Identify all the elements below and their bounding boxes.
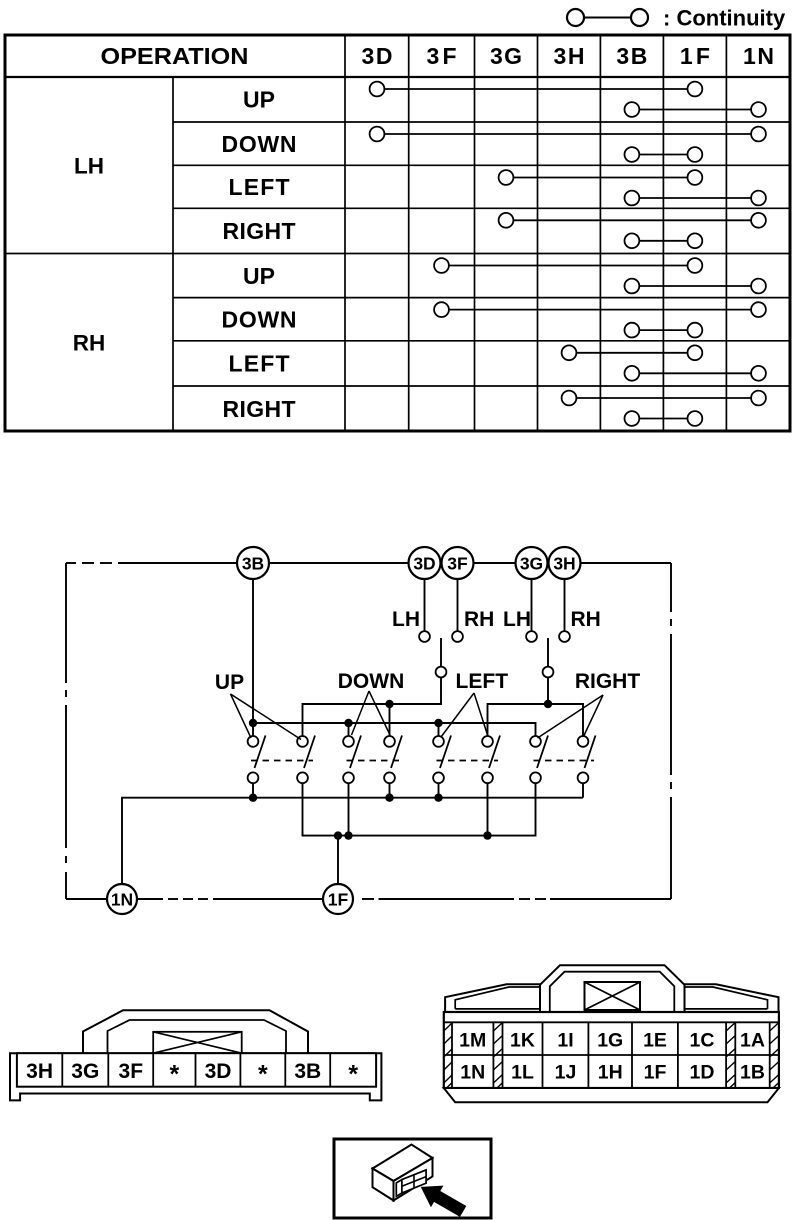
label LEFT with leader lines: [441, 670, 508, 737]
svg-text:RH: RH: [464, 608, 494, 631]
relay body right face: [394, 1158, 433, 1201]
svg-text:RIGHT: RIGHT: [223, 396, 296, 422]
svg-text:DOWN: DOWN: [222, 131, 297, 157]
svg-text:1D: 1D: [690, 1061, 715, 1083]
svg-text:3H: 3H: [554, 43, 585, 69]
svg-text:*: *: [170, 1061, 180, 1089]
switch 8 RIGHT-RH: [578, 736, 596, 784]
connector body frame: [444, 1012, 779, 1088]
svg-text:1K: 1K: [510, 1030, 535, 1052]
svg-text:3B: 3B: [294, 1060, 321, 1083]
wire switch4 bottom to 1N bus: [389, 783, 391, 797]
connector hood inner: [550, 972, 675, 1012]
row direction labels: [222, 87, 297, 422]
RH DOWN: 3F-1N / 3B-1F: [434, 302, 766, 317]
svg-text:1L: 1L: [511, 1061, 534, 1083]
contact 3G (LH): [526, 631, 537, 642]
label RIGHT with leader lines: [538, 670, 641, 738]
svg-text:LH: LH: [74, 154, 104, 179]
junction right group bus / right pivot: [544, 700, 552, 708]
svg-text:LEFT: LEFT: [229, 174, 290, 200]
wire left group bus drop to switch 4: [389, 704, 391, 736]
contact 3H (RH): [559, 631, 570, 642]
mechanical coupling dashed links: [251, 760, 594, 762]
wiper LH/RH selector left: [440, 638, 442, 667]
svg-text:LH: LH: [392, 608, 420, 631]
pivot contact right selector: [543, 667, 554, 678]
switch bank: 8 poles: [248, 736, 596, 784]
svg-text:3F: 3F: [427, 43, 457, 69]
wire 3B riser down to switch 1: [252, 579, 254, 736]
wire bottom rail left corner to 1N: [66, 898, 107, 900]
connector hood outer: [540, 965, 685, 1012]
terminal 3D: [409, 547, 441, 579]
switch 3 DOWN-LH: [343, 736, 361, 784]
legend continuity symbol: [567, 6, 786, 31]
wire switch6 bottom to 1F bus: [487, 783, 489, 835]
RH RIGHT: 3H-1N / 3B-1F: [562, 391, 766, 406]
svg-text:3D: 3D: [362, 43, 393, 69]
junction 3B bus / switch 3: [344, 719, 352, 727]
svg-text:3B: 3B: [242, 554, 264, 574]
connector bottom lip: [444, 1088, 779, 1102]
svg-text:3G: 3G: [490, 43, 522, 69]
switch 1 UP-LH: [248, 736, 266, 784]
junction 3B bus / switch 5: [434, 719, 442, 727]
wire right pivot to right group bus: [547, 678, 549, 705]
contact 3F (RH): [452, 631, 463, 642]
svg-text:RH: RH: [571, 608, 601, 631]
junction 1N bus / switch 1: [249, 794, 257, 802]
label DOWN with leader lines: [338, 670, 405, 735]
wire switch3 bottom to 1F bus: [348, 783, 350, 835]
svg-text:1A: 1A: [740, 1030, 765, 1052]
svg-text:1J: 1J: [555, 1061, 577, 1083]
svg-text:DOWN: DOWN: [222, 307, 297, 333]
svg-text:1G: 1G: [597, 1030, 623, 1052]
svg-text:UP: UP: [243, 263, 275, 289]
wire bottom rail 1F to right corner with dashes: [362, 898, 671, 900]
wire 3B bus drop to switch 3: [348, 723, 350, 736]
terminal 3F: [442, 547, 474, 579]
svg-text:3H: 3H: [553, 554, 575, 574]
svg-text:1H: 1H: [598, 1061, 623, 1083]
wire left pivot to left group bus: [303, 678, 442, 737]
relay frame: [334, 1139, 491, 1218]
wiper LH/RH selector right: [547, 638, 549, 667]
svg-text:DOWN: DOWN: [338, 670, 405, 693]
junction 1N bus / switch 5: [434, 794, 442, 802]
wire 1F bus: [303, 783, 536, 835]
wire right group bus switch6 to switch8: [488, 704, 584, 736]
svg-text:1F: 1F: [644, 1061, 667, 1083]
wire 1N bus: [122, 798, 583, 884]
wire switch8 bottom to 1N bus: [582, 783, 584, 797]
svg-text:1F: 1F: [328, 890, 349, 910]
switch 7 RIGHT-LH: [530, 736, 548, 784]
wire top rail left segment with break: [66, 562, 238, 564]
pivot contact left selector: [436, 667, 447, 678]
connector lock box with X: [153, 1032, 242, 1053]
continuity bars: line + two open circles each: [370, 82, 766, 426]
connector grid midline: [444, 1054, 779, 1056]
svg-text:3F: 3F: [447, 554, 468, 574]
svg-text:1M: 1M: [459, 1030, 486, 1052]
terminal 3H: [549, 547, 581, 579]
wire top rail 3B to 3D: [269, 562, 410, 564]
hatched blank strips: [444, 1023, 779, 1089]
wire 3D drop to contact: [424, 579, 426, 631]
table horizontal grid lines: [5, 77, 790, 386]
junction 1N bus / switch 4: [385, 794, 393, 802]
svg-text:3G: 3G: [71, 1060, 99, 1083]
connector left wing: [445, 984, 540, 1012]
wire 3H drop to contact: [564, 579, 566, 631]
switch 4 DOWN-RH: [384, 736, 402, 784]
svg-text:3F: 3F: [119, 1060, 144, 1083]
svg-text:1N: 1N: [111, 890, 133, 910]
junction 3B riser / 3B bus: [249, 719, 257, 727]
terminal 3B: [237, 547, 269, 579]
junction 1F bus / switch 3: [344, 831, 352, 839]
svg-text:3G: 3G: [520, 554, 543, 574]
svg-text:3D: 3D: [205, 1060, 232, 1083]
connector hood outer: [83, 1010, 308, 1053]
svg-text:1I: 1I: [557, 1030, 573, 1052]
junction 1F bus / switch 6: [483, 831, 491, 839]
relay pointer arrow: [414, 1176, 469, 1220]
wire 3F drop to contact: [457, 579, 459, 631]
svg-text:3H: 3H: [26, 1060, 53, 1083]
terminal 3G: [516, 547, 548, 579]
wire 1F riser: [337, 836, 339, 884]
wire 3G drop to contact: [531, 579, 533, 631]
relay body top face: [373, 1145, 433, 1182]
wire switch5 bottom to 1N bus: [438, 783, 440, 797]
wire left border vertical with dash-dot breaks: [65, 563, 67, 899]
wire switch1 bottom to 1N bus: [252, 783, 254, 797]
RH LEFT: 3H-1F / 3B-1N: [562, 345, 703, 360]
LH DOWN: 3D-1N / 3B-1F: [370, 127, 766, 142]
wire top rail 3F to 3G: [473, 562, 516, 564]
table vertical grid lines: [173, 35, 726, 431]
LH RIGHT: 3G-1N / 3B-1F: [499, 213, 766, 228]
connector column dividers: [452, 1022, 770, 1088]
svg-text:RIGHT: RIGHT: [223, 218, 296, 244]
switch 2 UP-RH: [297, 736, 315, 784]
connector tray outline: [10, 1053, 381, 1100]
svg-text:1E: 1E: [643, 1030, 667, 1052]
svg-text:UP: UP: [215, 671, 244, 694]
label UP with leader lines: [215, 671, 301, 740]
table header pins: [362, 43, 775, 69]
LH UP: 3D-1F / 3B-1N: [370, 82, 703, 97]
terminal 1N: [107, 884, 137, 914]
terminal 1F: [323, 884, 353, 914]
svg-text:1C: 1C: [690, 1030, 715, 1052]
svg-text:LH: LH: [503, 608, 531, 631]
table outer border: [5, 35, 790, 431]
RH UP: 3F-1F / 3B-1N: [434, 258, 702, 273]
wire 3B bus: [253, 723, 536, 736]
contact 3D (LH): [419, 631, 430, 642]
connector hood inner: [108, 1020, 287, 1053]
switch 5 LEFT-LH: [433, 736, 451, 784]
wire 3B bus drop to switch 5: [438, 723, 440, 736]
svg-text:*: *: [258, 1061, 268, 1089]
junction left group bus / switch 4: [385, 700, 393, 708]
row group labels: [73, 154, 106, 356]
svg-text:1B: 1B: [740, 1061, 765, 1083]
svg-text:1N: 1N: [460, 1061, 485, 1083]
svg-text:1F: 1F: [680, 43, 710, 69]
svg-text:3D: 3D: [413, 554, 435, 574]
svg-text:OPERATION: OPERATION: [101, 43, 249, 69]
switch 6 LEFT-RH: [482, 736, 500, 784]
relay body left face: [373, 1169, 394, 1201]
LH LEFT: 3G-1F / 3B-1N: [499, 170, 703, 185]
svg-text:1N: 1N: [743, 43, 774, 69]
connector right wing: [685, 984, 779, 1012]
junction 1F bus / 1F riser: [334, 831, 342, 839]
svg-text:LEFT: LEFT: [229, 351, 290, 377]
connector lock box with X: [585, 982, 641, 1010]
svg-text:3B: 3B: [616, 43, 647, 69]
svg-text:*: *: [348, 1061, 358, 1089]
connector pin dividers: [62, 1053, 330, 1087]
svg-text:UP: UP: [243, 87, 275, 113]
svg-text:RH: RH: [73, 331, 106, 356]
wire bottom rail 1N to 1F with dashes: [137, 898, 323, 900]
svg-text:LEFT: LEFT: [456, 670, 509, 693]
connector grid top line: [444, 1021, 779, 1023]
relay socket: [396, 1170, 426, 1196]
svg-text:RIGHT: RIGHT: [575, 670, 641, 693]
wire top rail 3H to right corner: [580, 562, 671, 564]
svg-text:: Continuity: : Continuity: [663, 6, 786, 31]
connector pin row frame: [17, 1053, 376, 1087]
wire right border vertical with dash-dot breaks: [670, 563, 672, 899]
